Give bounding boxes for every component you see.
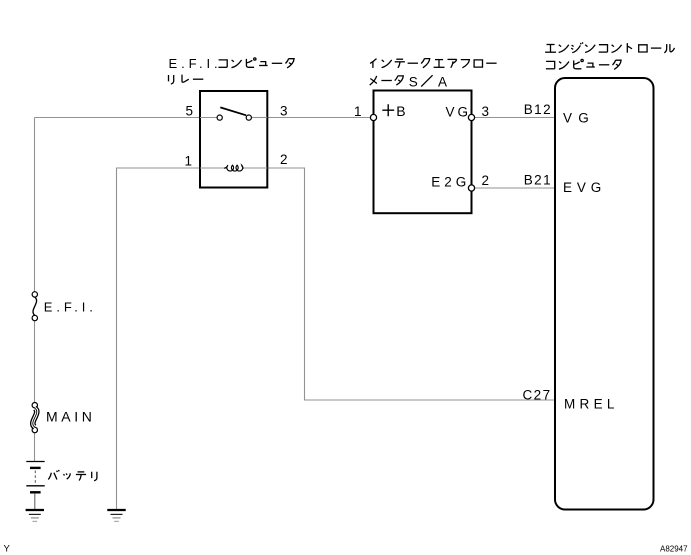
svg-text:MAIN: MAIN: [46, 409, 95, 425]
wire: relay pin 3 to air flow meter +B: [267, 117, 370, 119]
wire: battery to ground: [34, 494, 36, 509]
label: engine control computer (header line 1): [545, 42, 674, 52]
svg-text:1: 1: [184, 154, 192, 169]
svg-text:5: 5: [185, 103, 193, 118]
fusible link MAIN top circle: [32, 403, 37, 408]
battery plate + long (lower cell): [26, 485, 44, 487]
label: intake air flow meter S/A (header line 1): [370, 58, 496, 68]
wire: battery feed top horizontal (node to relay pin 5): [35, 117, 201, 119]
svg-text:2: 2: [482, 173, 490, 188]
fuse F1 E.F.I. top circle: [32, 292, 37, 297]
svg-text:E.F.I.: E.F.I.: [169, 56, 222, 71]
wire: between MAIN link and battery: [34, 433, 36, 461]
svg-text:A: A: [438, 74, 447, 89]
svg-text:VG: VG: [563, 111, 595, 126]
svg-text:B12: B12: [524, 102, 552, 117]
ECU box: [555, 78, 654, 510]
svg-text:E2G: E2G: [431, 175, 470, 190]
ground G1 (battery): [26, 510, 44, 521]
relay internal coil wire right: [244, 167, 268, 169]
relay box U1: [200, 91, 267, 188]
wire: between EFI fuse and MAIN link: [34, 321, 36, 403]
svg-text:A82947: A82947: [660, 545, 688, 554]
svg-text:B: B: [396, 103, 405, 119]
label: meter S/A (header line 2): [370, 74, 447, 89]
relay internal wire right (switch to pin 3): [252, 117, 268, 119]
wire: air flow meter VG to ECU B12: [475, 117, 555, 119]
wire: left vertical down to EFI fuse: [34, 118, 36, 292]
svg-text:2: 2: [280, 152, 288, 167]
label: E.F.I. computer relay (header line 1): [169, 56, 295, 71]
svg-text:B21: B21: [524, 172, 552, 187]
svg-text:C27: C27: [523, 388, 552, 403]
svg-text:3: 3: [482, 104, 490, 119]
battery BT1 plate + long: [26, 461, 44, 463]
air flow meter pin 1 terminal: [370, 114, 376, 120]
fusible link MAIN element: [33, 408, 37, 427]
wire: ground leg to relay pin 1: [117, 168, 201, 509]
relay switch contact circles: [217, 115, 222, 120]
svg-text:MREL: MREL: [564, 396, 619, 411]
svg-text:EVG: EVG: [563, 180, 606, 195]
battery dashed middle: [34, 471, 36, 485]
air flow meter pin 3 terminal (VG): [468, 114, 474, 120]
relay coil L1: [224, 165, 244, 171]
relay switch arm: [220, 107, 246, 115]
air flow meter box: [374, 91, 472, 214]
svg-text:Y: Y: [4, 544, 11, 555]
svg-text:E.F.I.: E.F.I.: [44, 300, 97, 315]
wire: air flow meter E2G to ECU B21: [475, 187, 555, 189]
air flow meter pin 2 terminal (E2G): [468, 185, 474, 191]
svg-text:S: S: [409, 74, 418, 89]
svg-text:3: 3: [280, 103, 288, 118]
wire: relay pin 2 to ECU C27 (MREL): [267, 168, 555, 400]
relay internal wire left (pin 5 to switch): [200, 117, 217, 119]
battery plate - short thick: [30, 467, 41, 469]
label: relay (header line 2): [169, 75, 204, 84]
battery label (katakana batteri): [48, 470, 97, 481]
fuse F1 E.F.I. element: [33, 297, 37, 315]
fusible link MAIN bottom circle: [32, 427, 37, 432]
label: computer (header line 2): [546, 59, 621, 69]
svg-text:VG: VG: [445, 104, 471, 119]
ground G2 (relay coil): [107, 510, 125, 521]
fuse F1 E.F.I. bottom circle: [32, 315, 37, 320]
battery plate - short thick (lower cell): [30, 491, 41, 493]
svg-text:1: 1: [354, 104, 362, 119]
+B terminal label: [382, 103, 405, 119]
relay internal coil wire left: [200, 167, 224, 169]
